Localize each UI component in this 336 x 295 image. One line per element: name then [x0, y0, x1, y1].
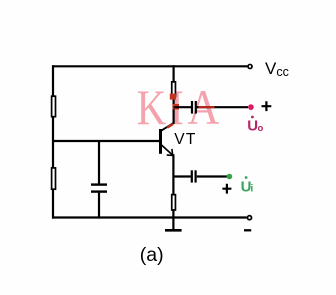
transistor VT collector lead — [161, 123, 174, 131]
wire output left — [174, 106, 191, 108]
capacitor C1 left plate — [191, 101, 193, 114]
svg-text:(a): (a) — [140, 244, 164, 266]
red patch at output-wire junction over I stem — [172, 104, 179, 109]
label minus — [244, 229, 251, 231]
svg-text:Vcc: Vcc — [265, 59, 289, 79]
label Ui — [241, 176, 254, 195]
wire input right — [197, 175, 227, 177]
wire top rail — [52, 65, 247, 67]
svg-text:i: i — [250, 182, 253, 194]
transistor VT emitter arrowhead — [167, 149, 173, 156]
svg-text:o: o — [258, 123, 264, 134]
wire output right — [197, 106, 248, 108]
terminal bottom right — [247, 216, 251, 220]
red overlap on output wire — [199, 106, 215, 108]
wire bottom rail — [52, 216, 247, 218]
ground stem — [172, 218, 174, 231]
node input dot — [227, 174, 233, 180]
ground bar — [165, 229, 182, 232]
label + output — [262, 101, 272, 111]
capacitor C3 left plate — [191, 170, 193, 182]
red overlap on collector lead — [167, 124, 173, 128]
resistor Rc — [172, 82, 176, 96]
label Uo — [247, 116, 263, 135]
capacitor C3 right plate — [195, 170, 197, 182]
capacitor C1 right plate — [195, 101, 197, 114]
capacitor C2 top plate — [91, 183, 107, 185]
svg-text:VT: VT — [174, 131, 196, 148]
transistor VT base bar — [159, 129, 162, 154]
wire collector vertical — [173, 65, 175, 124]
capacitor C2 bypass: upper lead — [98, 141, 100, 184]
wire left vertical — [52, 65, 54, 218]
node output dot — [248, 104, 254, 110]
transistor VT emitter lead — [161, 144, 173, 155]
capacitor C2 bottom plate — [91, 190, 107, 192]
resistor R1 — [52, 96, 56, 117]
capacitor C2 lower lead — [98, 193, 100, 219]
wire base — [53, 140, 159, 142]
red patch at Rc bottom over I serif — [170, 94, 176, 100]
wire emitter vertical — [172, 154, 174, 217]
resistor Re — [172, 195, 176, 210]
resistor R2 — [52, 168, 56, 189]
terminal Vcc — [248, 64, 252, 68]
label + input — [222, 184, 231, 194]
wire input branch — [173, 175, 190, 177]
